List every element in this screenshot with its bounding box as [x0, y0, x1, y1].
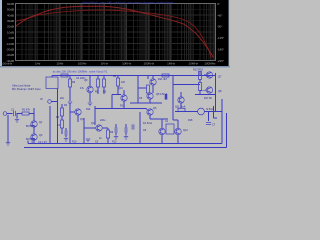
- svg-text:40dB: 40dB: [7, 13, 14, 17]
- svg-text:-225°: -225°: [217, 59, 225, 63]
- svg-text:47u: 47u: [80, 87, 85, 90]
- svg-text:Ultra Low Noise: Ultra Low Noise: [12, 84, 31, 88]
- svg-text:Q12: Q12: [183, 129, 188, 132]
- svg-text:100KHz: 100KHz: [143, 61, 154, 65]
- svg-text:BC550C: BC550C: [26, 125, 35, 128]
- svg-text:D1 5mA: D1 5mA: [143, 122, 152, 125]
- svg-text:10Hz: 10Hz: [56, 61, 64, 65]
- svg-text:R12: R12: [120, 105, 125, 108]
- svg-text:1k5: 1k5: [121, 81, 126, 84]
- svg-text:10dB: 10dB: [7, 30, 14, 34]
- svg-text:20dB: 20dB: [7, 25, 14, 29]
- svg-text:10MHz: 10MHz: [189, 61, 199, 65]
- svg-text:I1 5mA: I1 5mA: [206, 108, 214, 111]
- svg-text:100Hz: 100Hz: [78, 61, 87, 65]
- svg-text:R11 4k7: R11 4k7: [158, 78, 168, 81]
- svg-text:Q11 2mA: Q11 2mA: [175, 106, 186, 109]
- svg-text:30dB: 30dB: [7, 19, 14, 23]
- svg-text:-90°: -90°: [217, 25, 223, 29]
- svg-text:C4 n R7: C4 n R7: [38, 141, 47, 144]
- svg-text:Q5 0.5mA: Q5 0.5mA: [156, 93, 168, 96]
- svg-text:V(out)/V(in) : gain (dB, soli: V(out)/V(in) : gain (dB, solid line) and…: [82, 0, 174, 4]
- svg-text:100mHz: 100mHz: [1, 61, 13, 65]
- svg-text:.ac dec 100 100mHz 100MHz .n: .ac dec 100 100mHz 100MHz .noise V(out) …: [52, 69, 108, 73]
- svg-text:IN: IN: [40, 98, 43, 101]
- svg-text:R17 68: R17 68: [204, 97, 212, 100]
- svg-text:-10dB: -10dB: [6, 42, 14, 46]
- svg-text:MC Preamp / JFET input: MC Preamp / JFET input: [12, 87, 41, 91]
- svg-text:Q10: Q10: [118, 87, 123, 90]
- svg-text:1MHz: 1MHz: [167, 61, 175, 65]
- svg-text:2k2: 2k2: [60, 97, 65, 100]
- svg-text:BC550C: BC550C: [26, 138, 35, 141]
- svg-text:-180°: -180°: [217, 48, 225, 52]
- svg-text:R14: R14: [86, 108, 91, 111]
- svg-text:-30dB: -30dB: [6, 53, 14, 57]
- svg-text:R18: R18: [188, 119, 193, 122]
- svg-text:R10: R10: [72, 141, 77, 144]
- svg-text:1KHz: 1KHz: [101, 61, 109, 65]
- svg-text:R1 47k: R1 47k: [22, 109, 31, 112]
- svg-text:-45°: -45°: [217, 13, 223, 17]
- svg-text:10KHz: 10KHz: [122, 61, 132, 65]
- svg-text:50dB: 50dB: [7, 8, 14, 12]
- svg-text:220u: 220u: [100, 119, 106, 122]
- svg-text:60dB: 60dB: [7, 2, 14, 6]
- svg-text:100MHz: 100MHz: [204, 61, 216, 65]
- svg-text:R13: R13: [112, 141, 117, 144]
- svg-text:0dB: 0dB: [9, 36, 14, 40]
- svg-text:R15 R16: R15 R16: [193, 69, 203, 72]
- svg-text:-135°: -135°: [217, 36, 225, 40]
- svg-text:1Hz: 1Hz: [35, 61, 41, 65]
- svg-text:-20dB: -20dB: [6, 48, 14, 52]
